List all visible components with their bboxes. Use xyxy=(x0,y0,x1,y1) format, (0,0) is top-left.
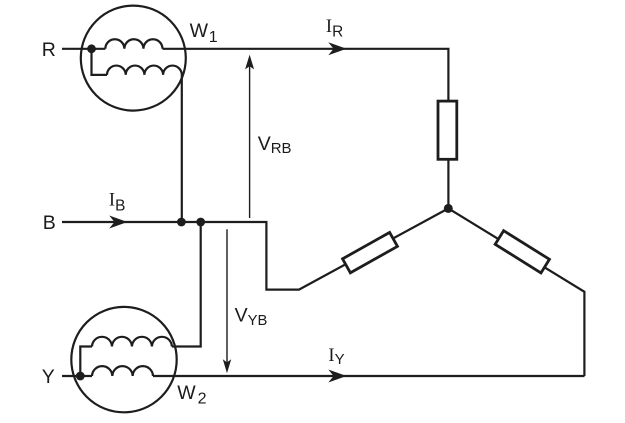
svg-text:R: R xyxy=(42,39,56,61)
svg-text:Y: Y xyxy=(42,366,55,388)
svg-text:B: B xyxy=(43,212,56,234)
